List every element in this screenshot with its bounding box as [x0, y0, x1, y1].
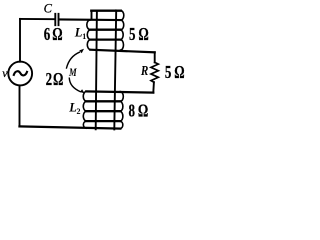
capacitor C plates — [55, 14, 58, 25]
svg-text:6Ω: 6Ω — [44, 25, 63, 45]
resistor R zigzag — [151, 62, 158, 82]
inductor L1 turn 1 — [91, 10, 121, 12]
transformer core rail right — [114, 10, 116, 129]
inductor L2 turn 3 — [86, 110, 120, 112]
inductor L2 right loop bumps — [120, 92, 123, 129]
svg-text:M: M — [68, 67, 77, 80]
source v tilde — [14, 71, 27, 75]
inductor L1 exit turn / wire to resistor R — [90, 50, 154, 53]
wire: source bottom down to bottom wire — [19, 85, 21, 126]
svg-text:v: v — [2, 66, 8, 80]
svg-text:5Ω: 5Ω — [165, 63, 185, 83]
mutual inductance M arrowhead lower — [80, 89, 85, 93]
wire: capacitor to transformer, merges with L1 second turn — [59, 18, 120, 21]
inductor L1 turn 4 — [90, 38, 120, 40]
inductor L1 lead from top wire up to first turn — [91, 11, 93, 20]
svg-text:2Ω: 2Ω — [46, 70, 64, 90]
source v circle — [8, 62, 32, 86]
wire: left vertical from top wire down to source — [19, 19, 21, 62]
svg-text:R: R — [140, 63, 148, 78]
inductor L1 turn 3 — [90, 29, 120, 31]
inductor L2 left loop bumps — [83, 91, 86, 128]
svg-text:5Ω: 5Ω — [129, 25, 149, 45]
inductor L2 top turn / wire to resistor R bottom — [86, 91, 153, 92]
svg-text:2: 2 — [77, 107, 81, 116]
mutual inductance M arrowhead upper — [79, 49, 84, 53]
svg-text:8Ω: 8Ω — [129, 101, 149, 121]
svg-text:1: 1 — [82, 32, 86, 41]
wire: resistor R bottom down to L2 top wire — [152, 82, 155, 92]
inductor L1 left loop bumps — [87, 20, 91, 50]
svg-text:C: C — [44, 1, 53, 15]
transformer core rail left — [96, 10, 97, 129]
inductor L1 right loop bumps — [121, 11, 124, 50]
mutual inductance M arrow lower arc — [69, 78, 80, 91]
wire: right vertical from L1 exit down to resistor R — [154, 52, 156, 62]
inductor L2 turn 2 — [86, 100, 120, 102]
wire: top horizontal from left corner to capacitor — [20, 18, 54, 20]
wire: bottom horizontal, continues as L2 bottom turn — [20, 126, 121, 128]
inductor L2 turn 4 — [86, 120, 120, 122]
mutual inductance M arrow upper arc — [67, 52, 80, 68]
